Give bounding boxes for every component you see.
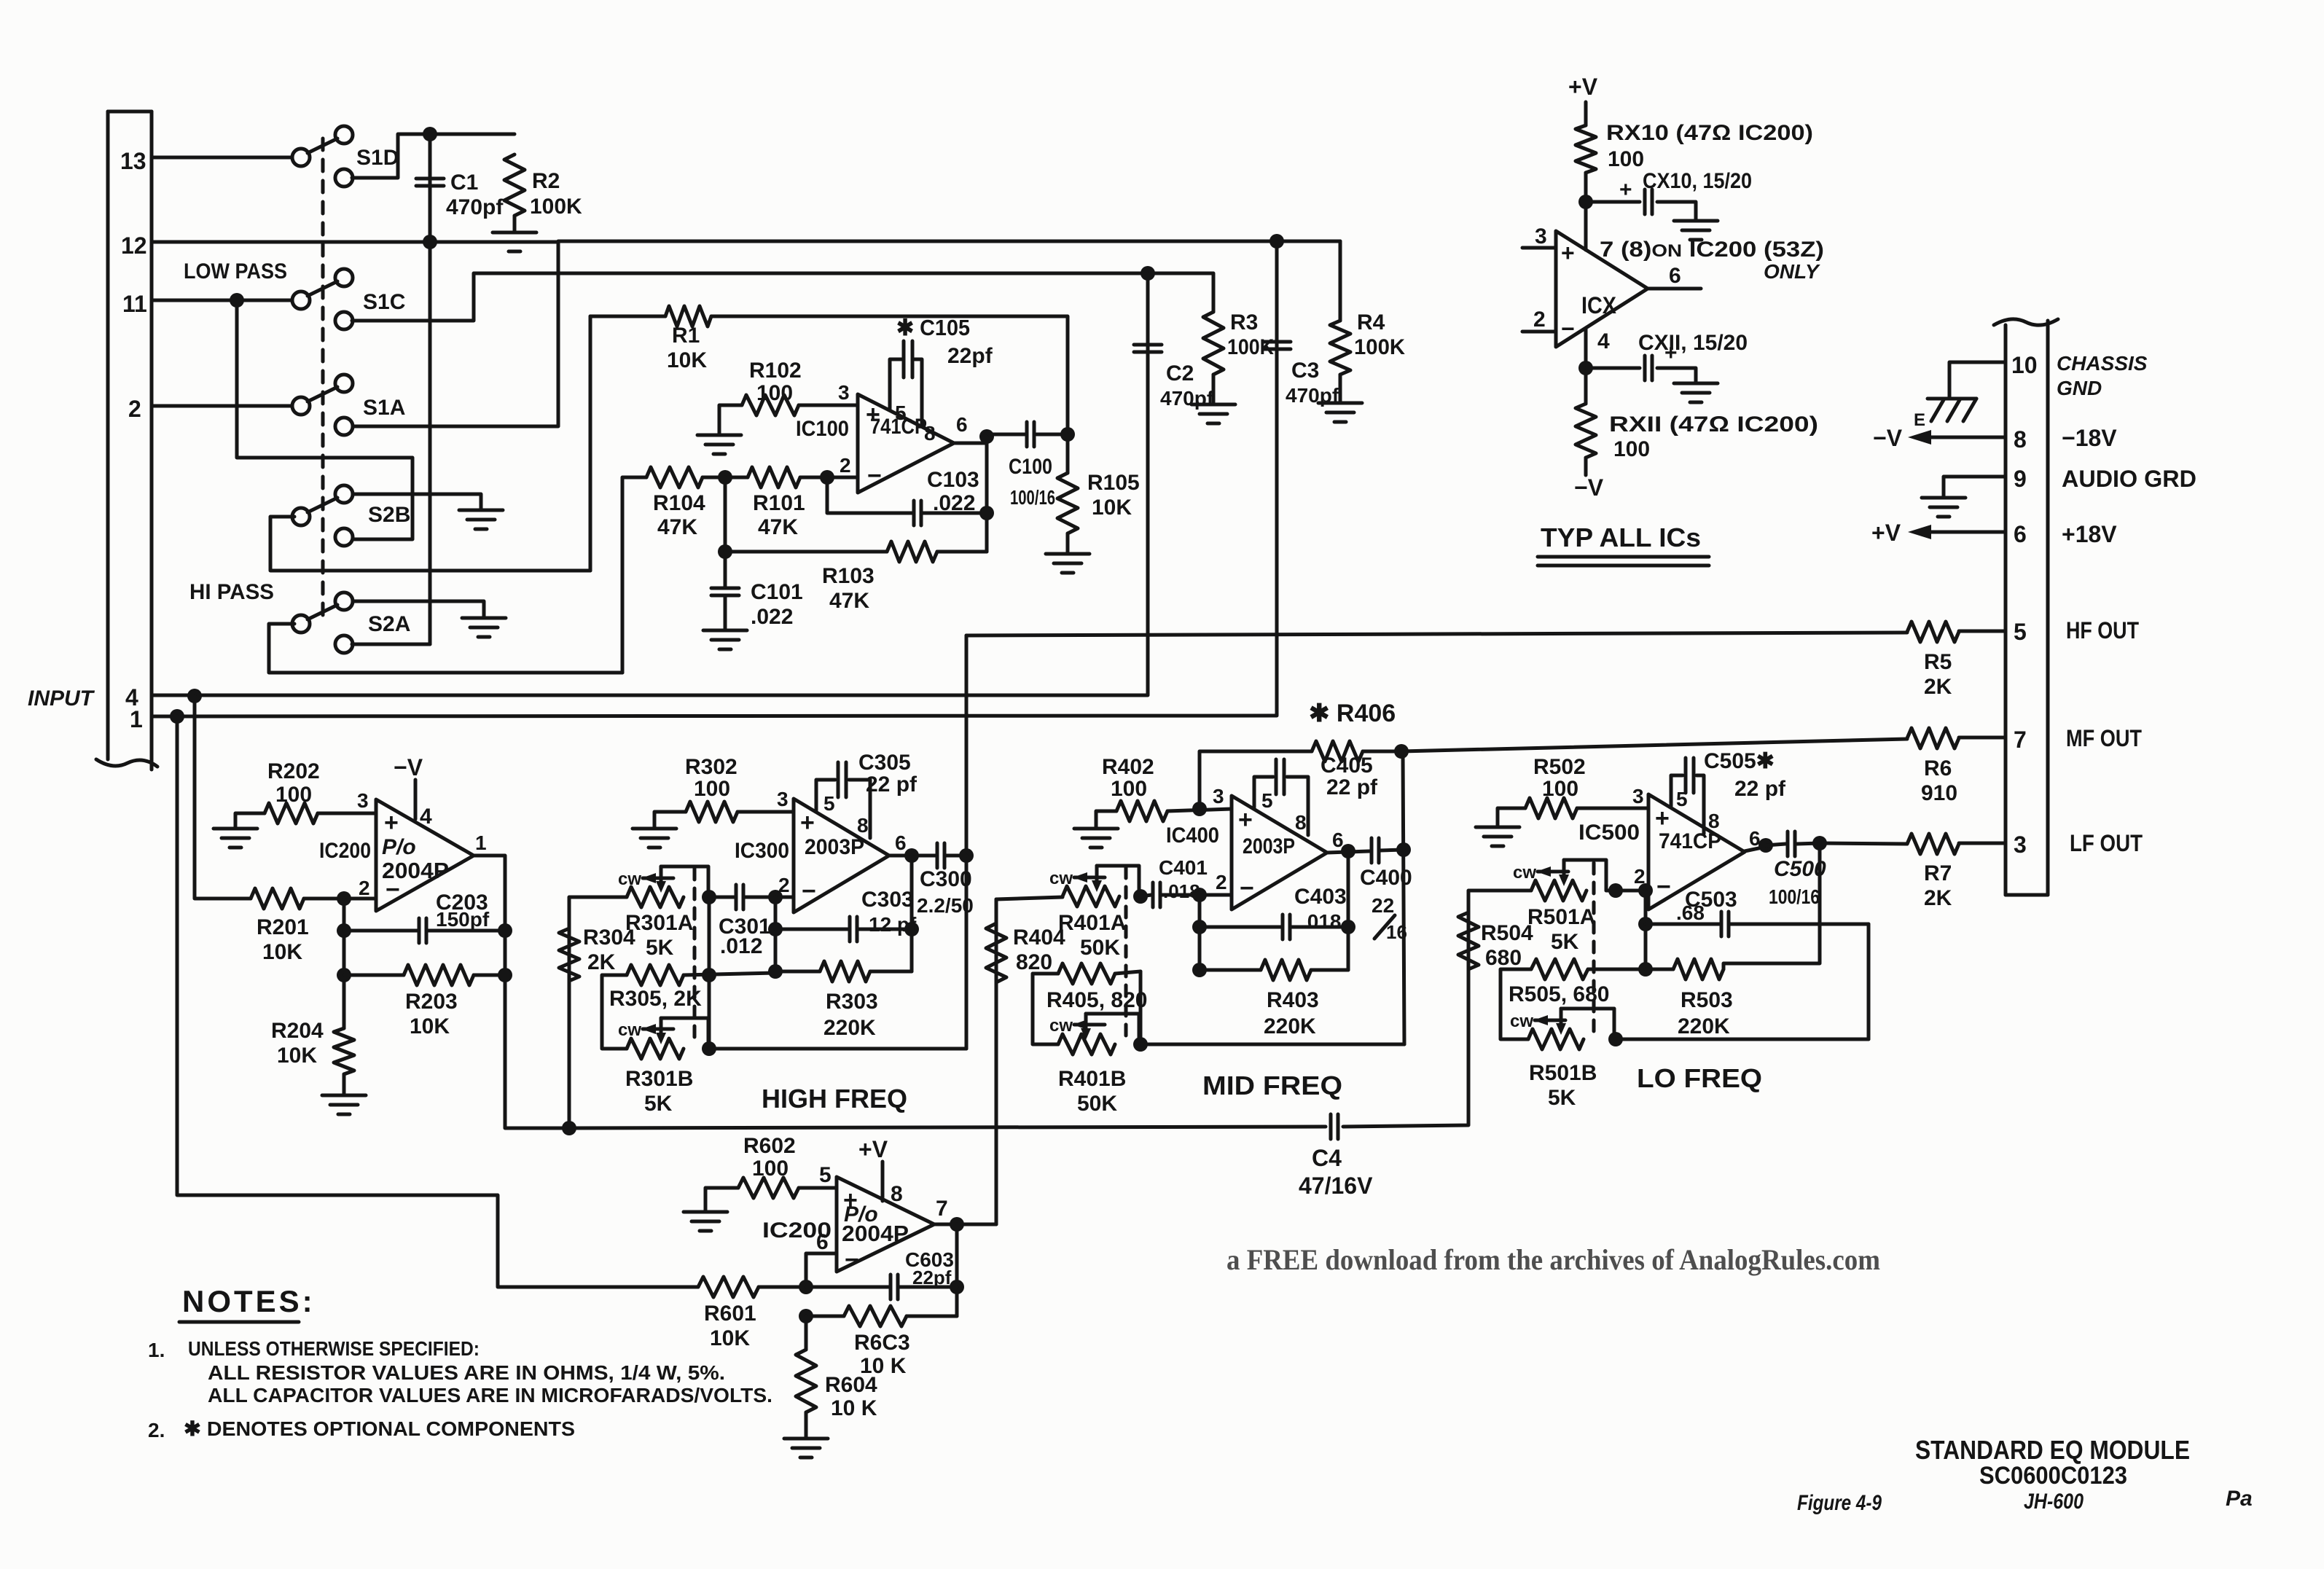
label R102 (749, 359, 802, 383)
label C400 value slash (1374, 915, 1395, 939)
svg-text:RX10 (47Ω IC200): RX10 (47Ω IC200) (1606, 121, 1813, 145)
wire pin4 tap down to R201 (195, 696, 251, 899)
svg-text:22 pf: 22 pf (866, 772, 918, 797)
label R301A value (646, 936, 674, 960)
vertical IC300 out chain (910, 856, 914, 971)
label R501B value (1548, 1086, 1576, 1110)
label C3 (1291, 359, 1319, 383)
ground below R2 (493, 232, 536, 251)
label R301A (625, 911, 693, 935)
svg-text:R101: R101 (753, 491, 805, 515)
resistor RX11 (1576, 404, 1596, 458)
pin 7 note ICX (1600, 238, 1824, 262)
wire R201 right to pin2 (304, 897, 376, 901)
wire HF rail (709, 1047, 966, 1051)
svg-text:2: 2 (840, 454, 851, 477)
potentiometer R301A 5K (627, 866, 708, 907)
label AUDIO GRD (2062, 466, 2196, 492)
svg-text:R7: R7 (1924, 861, 1952, 885)
junction pin2 IC200 node (337, 891, 351, 906)
label R601 (704, 1302, 756, 1326)
capacitor C1 (416, 179, 444, 186)
wire pin10 to chassis ground (1949, 362, 2006, 399)
label C305 (858, 751, 911, 775)
wire pin1 input bus (152, 716, 1277, 716)
label R6 (1924, 756, 1952, 780)
junction C403 left (1192, 920, 1207, 934)
label IC600 (IC200) (762, 1218, 832, 1243)
svg-text:3: 3 (1535, 224, 1547, 249)
wire pin4 ICX (1584, 329, 1588, 404)
svg-text:100: 100 (694, 777, 730, 801)
svg-text:C4: C4 (1312, 1145, 1342, 1171)
label R304 (583, 926, 635, 950)
svg-text:R105: R105 (1087, 471, 1140, 495)
svg-text:R4: R4 (1357, 310, 1385, 334)
vertical fb chain IC200 (343, 899, 346, 1028)
pin 1 label IC200 (475, 832, 487, 854)
wire IC600 output to R404 riser (957, 1223, 996, 1226)
svg-text:100: 100 (275, 783, 312, 807)
label -18V (2062, 425, 2117, 451)
label R505 (1509, 982, 1609, 1006)
resistor R201 (251, 888, 304, 909)
resistor R3 (1203, 312, 1224, 375)
label C103 value (933, 491, 975, 515)
svg-text:RXII (47Ω IC200): RXII (47Ω IC200) (1609, 412, 1818, 437)
svg-text:−V: −V (1574, 474, 1604, 501)
label -V (ICX) (1574, 474, 1604, 501)
resistor R505 (1531, 959, 1588, 979)
label R2 (532, 169, 560, 193)
label R203 (405, 990, 458, 1014)
label R6 value (1921, 781, 1957, 805)
label cw for R401A (1049, 869, 1073, 888)
capacitor C2 (1134, 345, 1162, 352)
svg-text:47K: 47K (657, 515, 697, 539)
svg-text:5: 5 (2014, 619, 2027, 645)
junction IC300 output (904, 848, 919, 863)
label C405 value (1326, 775, 1378, 799)
resistor R603 (844, 1306, 907, 1326)
resistor R403 (1261, 960, 1311, 980)
svg-text:47K: 47K (829, 589, 869, 613)
pin 2 label ICX (1533, 308, 1546, 332)
wire CX10 left leg (1586, 200, 1640, 204)
riser S2B common to R1 left (589, 316, 592, 571)
svg-text:100K: 100K (530, 195, 582, 219)
svg-text:R401A: R401A (1058, 911, 1126, 935)
wire -V stub IC200 (414, 780, 418, 819)
resistor R202 (265, 803, 318, 823)
svg-text:8: 8 (1295, 811, 1307, 834)
svg-text:C2: C2 (1166, 361, 1194, 386)
wire ICX pin6 output (1648, 287, 1701, 291)
pin 3 label IC200 (357, 789, 369, 812)
junction C203 left (337, 923, 351, 938)
wire pin3 IC200 (318, 812, 376, 815)
pin 6 label IC300 (895, 832, 907, 854)
svg-text:5: 5 (819, 1163, 832, 1187)
svg-text:100: 100 (1613, 437, 1650, 461)
label LF OUT (2070, 830, 2143, 856)
label R404 value (1016, 950, 1052, 974)
wire S1D lower throw to C1 top (352, 134, 430, 178)
wire pin13 to S1D common (152, 156, 293, 160)
wire R302 left to ground (654, 812, 686, 829)
dashed gang line R501A/R501B (1592, 863, 1596, 1035)
svg-text:22pf: 22pf (912, 1267, 952, 1288)
label R103 value (829, 589, 869, 613)
junction pin12 / C1 line (423, 235, 437, 249)
label C203 (436, 891, 488, 915)
wire IC600 output (934, 1223, 957, 1226)
note 2 text (184, 1417, 575, 1440)
wire pin6 IC600 (806, 1253, 837, 1287)
svg-text:cw: cw (1049, 869, 1073, 888)
potentiometer R501B 5K (1528, 1009, 1614, 1049)
junction C3 top (1269, 234, 1284, 249)
wire R404 riser (995, 899, 998, 1224)
wire R501A to pin2 IC500 (1606, 889, 1648, 893)
wire R405 node (1139, 971, 1143, 1044)
vertical MID coupling riser (1403, 751, 1404, 1044)
label CX11 plus (1664, 341, 1678, 365)
pin 9 (2014, 466, 2027, 492)
svg-text:22pf: 22pf (947, 344, 993, 368)
potentiometer R401A 50K (1063, 866, 1139, 907)
svg-text:8: 8 (2014, 426, 2027, 453)
label C505 value (1734, 777, 1786, 801)
svg-text:100K: 100K (1354, 335, 1405, 359)
wire C401 left leg (1141, 895, 1151, 896)
label IC100 type 741CP (870, 415, 927, 439)
capacitor C405 (1276, 759, 1284, 794)
ground below R4 (1318, 403, 1362, 422)
wire R406 right leg (1363, 750, 1401, 754)
svg-text:10 K: 10 K (831, 1396, 877, 1420)
wire R505 right leg (1588, 968, 1646, 971)
svg-text:C505✱: C505✱ (1704, 749, 1775, 773)
label C305 value (866, 772, 918, 797)
switch S1C (292, 269, 353, 329)
resistor R503 (1673, 959, 1724, 979)
wire R603 left leg (806, 1315, 844, 1318)
wire IC100 output (954, 434, 1025, 443)
svg-text:IC300: IC300 (735, 839, 789, 863)
svg-text:ICX: ICX (1581, 292, 1617, 318)
wire CX11 right to ground (1657, 368, 1696, 383)
svg-text:741CP: 741CP (1659, 829, 1721, 853)
wire R303 right leg (870, 970, 912, 974)
capacitor C505 (1686, 758, 1694, 793)
label E at chassis ground (1914, 410, 1925, 430)
label R3 (1230, 310, 1258, 334)
svg-text:8: 8 (1708, 810, 1720, 832)
svg-text:−: − (802, 877, 816, 905)
svg-text:820: 820 (1016, 950, 1052, 974)
label C303 (861, 888, 914, 912)
label R602 value (752, 1157, 789, 1181)
label R604 (825, 1373, 877, 1397)
pin 6 label IC100 (956, 413, 968, 436)
label R2 value (530, 195, 582, 219)
label C203 value (436, 908, 490, 931)
svg-text:ONLY: ONLY (1764, 260, 1820, 283)
wire pin2 to S1A common (152, 404, 293, 408)
label R101 value (758, 515, 798, 539)
label R204 (271, 1019, 324, 1043)
svg-text:R403: R403 (1267, 988, 1319, 1012)
svg-text:LO FREQ: LO FREQ (1637, 1063, 1762, 1093)
label C103 (927, 468, 979, 492)
wire pin3 IC100 (799, 404, 858, 407)
svg-text:R302: R302 (685, 755, 738, 779)
wire C401 right leg (1162, 893, 1232, 897)
svg-text:10K: 10K (710, 1326, 750, 1350)
label R401B value (1077, 1092, 1117, 1116)
junction pin2 IC100 node (820, 470, 834, 485)
pin 5 label IC100 (895, 402, 907, 424)
ground at S2A throw (462, 618, 506, 637)
capacitor CX10 (1645, 189, 1652, 214)
svg-text:IC400: IC400 (1166, 823, 1219, 848)
pin 5 label IC500 (1676, 788, 1688, 810)
svg-text:+: + (1619, 178, 1632, 202)
wire R303 left leg (775, 970, 820, 974)
capacitor C305 (838, 762, 846, 797)
wire S1C lower throw to R1/R3 net (352, 273, 1148, 321)
label IC300 type 2003P (805, 835, 864, 859)
wire pin5 IC600 (799, 1186, 837, 1190)
wire RX10 to pin7 (1584, 173, 1588, 250)
wire C4 to LO section (1343, 893, 1468, 1127)
svg-text:+V: +V (1871, 520, 1901, 546)
svg-text:3: 3 (1632, 785, 1644, 807)
pin 7 note ONLY (1764, 260, 1820, 283)
label C503 value (1676, 901, 1705, 924)
label R101 (753, 491, 805, 515)
label C400 (1360, 866, 1412, 890)
svg-text:−18V: −18V (2062, 425, 2117, 451)
wire C1 top node to R2 (430, 133, 515, 136)
junction pin2 IC400 node (1192, 888, 1207, 902)
ground below R502 (1476, 827, 1519, 846)
ground below R105 (1046, 554, 1089, 573)
svg-text:2K: 2K (1924, 886, 1952, 910)
wire R6 to pin7 (1959, 736, 2006, 740)
pin 5 label IC300 (823, 792, 835, 815)
note 1a text (208, 1361, 725, 1384)
svg-text:3: 3 (2014, 832, 2027, 858)
wire pin12 to S1A riser (152, 240, 558, 244)
pin 12 (121, 232, 147, 259)
svg-text:22 pf: 22 pf (1734, 777, 1786, 801)
svg-text:220K: 220K (823, 1016, 876, 1040)
wire R406 left leg (1200, 751, 1312, 809)
label R4 (1357, 310, 1385, 334)
wire R203 left leg (344, 974, 404, 977)
pin 6 label IC600 (816, 1230, 829, 1254)
pin 7 label IC600 (936, 1197, 948, 1221)
wire C403 right leg (1291, 926, 1348, 929)
wire R1 right to C100 node (711, 316, 1068, 434)
label C603 value (912, 1267, 952, 1288)
label R5 value (1924, 675, 1952, 699)
svg-text:−: − (1240, 875, 1254, 902)
label R102 value (756, 381, 793, 405)
svg-text:.68: .68 (1676, 901, 1705, 924)
wire LF OUT line (1820, 843, 1907, 844)
label R603 value (860, 1354, 907, 1378)
resistor R6 (1907, 728, 1959, 748)
wire C603 right leg (899, 1286, 957, 1289)
label C300 (920, 867, 972, 891)
svg-text:3: 3 (1213, 785, 1224, 807)
vertical pin2 chain IC300 (774, 897, 778, 973)
wire C603 left leg (806, 1286, 889, 1289)
wire R504 top to R501A (1468, 891, 1531, 912)
pin 3 label IC300 (777, 788, 789, 810)
wire C500 left leg (1766, 844, 1785, 845)
junction R401A right (1133, 889, 1148, 904)
svg-text:2.2/50: 2.2/50 (917, 894, 974, 917)
wire IC300 output (889, 854, 936, 858)
svg-text:1.: 1. (148, 1339, 165, 1361)
wire C303 left leg (775, 928, 849, 931)
wire C400 right leg (1380, 850, 1404, 850)
feedback box C305 pins 5/8 (816, 780, 870, 838)
svg-text:C403: C403 (1294, 885, 1347, 909)
label R303 value (823, 1016, 876, 1040)
label S1A (363, 396, 405, 420)
svg-text:10K: 10K (262, 940, 302, 964)
capacitor C101 (711, 588, 739, 595)
potentiometer R301B 5K (627, 1018, 708, 1059)
wire R202 left to ground (235, 813, 265, 829)
op-amp IC100 741CP (858, 394, 954, 493)
vertical LO C503 riser (1867, 924, 1871, 1039)
capacitor C503 (1721, 912, 1729, 936)
label S1C (363, 290, 405, 314)
svg-text:C300: C300 (920, 867, 972, 891)
label R601 value (710, 1326, 750, 1350)
ground below C101 (703, 630, 747, 649)
svg-text:8: 8 (857, 814, 869, 837)
svg-text:−: − (845, 1246, 859, 1274)
svg-text:Pa: Pa (2226, 1487, 2253, 1511)
connector J1 INPUT bar (96, 111, 157, 770)
svg-text:5K: 5K (644, 1092, 673, 1116)
label MF OUT (2066, 725, 2142, 751)
label CX10 plus (1619, 178, 1632, 202)
title Page (2226, 1487, 2253, 1511)
label R105 value (1092, 496, 1132, 520)
label R202 value (275, 783, 312, 807)
junction R503 left (1638, 962, 1653, 977)
svg-text:R501A: R501A (1527, 905, 1595, 929)
label R4 value (1354, 335, 1405, 359)
ground below R402 (1074, 829, 1118, 848)
svg-text:10K: 10K (410, 1014, 450, 1038)
resistor R101 (748, 467, 800, 488)
label cw for R401B (1049, 1016, 1073, 1036)
ground audio pin9 (1922, 498, 1965, 517)
wire IC400 output (1327, 851, 1369, 853)
svg-text:IC100: IC100 (796, 417, 849, 441)
label R401A value (1080, 936, 1120, 960)
svg-text:AUDIO GRD: AUDIO GRD (2062, 466, 2196, 492)
label R603 (854, 1331, 910, 1355)
ground below R604 (784, 1439, 828, 1458)
svg-text:150pf: 150pf (436, 908, 490, 931)
resistor R104 (646, 467, 703, 488)
wire R4 to ground (1339, 375, 1342, 403)
pin 3 label IC400 (1213, 785, 1224, 807)
pin 8 label IC500 (1708, 810, 1720, 832)
svg-text:4: 4 (1597, 329, 1610, 353)
wire C503 left leg (1646, 923, 1721, 926)
svg-text:✱ DENOTES OPTIONAL COMPONENTS: ✱ DENOTES OPTIONAL COMPONENTS (184, 1417, 575, 1440)
label C403 (1294, 885, 1347, 909)
svg-text:ALL CAPACITOR VALUES ARE IN MI: ALL CAPACITOR VALUES ARE IN MICROFARADS/… (208, 1384, 772, 1406)
label cw for R501B (1510, 1012, 1533, 1031)
svg-text:SC0600C0123: SC0600C0123 (1979, 1462, 2127, 1490)
junction R304 bottom on bus (562, 1121, 576, 1135)
resistor R302 (686, 802, 738, 822)
svg-text:−: − (1656, 873, 1671, 901)
junction C500 right (1812, 836, 1827, 850)
svg-text:5K: 5K (1548, 1086, 1576, 1110)
capacitor CX11 (1645, 356, 1652, 380)
wire C301 right leg (745, 896, 794, 899)
svg-text:50K: 50K (1080, 936, 1120, 960)
wire R1 left (590, 315, 665, 318)
label C401 value (1163, 880, 1200, 902)
label R1 value (667, 348, 707, 372)
op-amp ICX (TYP ALL ICs) (1556, 231, 1648, 347)
svg-text:R6C3: R6C3 (854, 1331, 910, 1355)
junction C1 top (423, 127, 437, 141)
wire R403 right leg (1311, 969, 1348, 972)
op-amp IC600 (IC200 P/O 2004P) (837, 1177, 934, 1274)
junction IC600 output (950, 1217, 964, 1232)
svg-text:C401: C401 (1159, 856, 1208, 879)
svg-text:47K: 47K (758, 515, 798, 539)
note 1b text (208, 1384, 772, 1406)
junction R301B right (702, 1041, 716, 1056)
op-amp IC300 2003P (794, 799, 889, 912)
resistor R604 (796, 1350, 816, 1412)
pin 4 (125, 684, 138, 711)
resistor R4 (1330, 321, 1350, 375)
resistor R5 (1907, 622, 1959, 642)
junction C100/R105/R1 (1060, 427, 1075, 442)
svg-text:1: 1 (130, 706, 143, 732)
capacitor C403 (1283, 915, 1290, 939)
svg-text:R301B: R301B (625, 1067, 693, 1091)
label R305 (609, 987, 702, 1011)
label C401 (1159, 856, 1208, 879)
svg-text:NOTES:: NOTES: (182, 1284, 316, 1318)
wire riser x766 pin12 to S1A throw (352, 242, 558, 426)
svg-text:+: + (1655, 805, 1670, 832)
pin 5 label IC600 (819, 1163, 832, 1187)
junction R603 left (799, 1309, 813, 1323)
wire pin3 IC500 (1577, 807, 1648, 810)
junction pin3 IC400 node (1192, 802, 1207, 816)
junction pin2 IC300 node (768, 890, 783, 904)
